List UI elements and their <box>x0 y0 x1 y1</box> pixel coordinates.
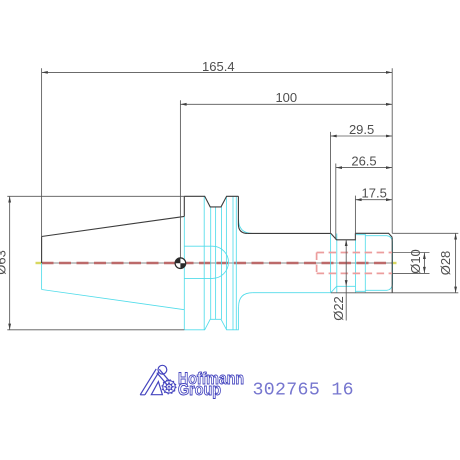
flange silhouette vertical x=215.6 (cyan) <box>215 207 217 319</box>
dim 100 line <box>180 103 392 105</box>
svg-text:26.5: 26.5 <box>351 154 376 169</box>
arrow 26.5 left <box>336 166 342 169</box>
arrow 100 right <box>386 103 392 106</box>
arrow dia10 top <box>423 253 426 259</box>
dia22 dim line <box>345 240 347 321</box>
dim 17.5 line <box>355 199 392 201</box>
ext line left 165.4 <box>41 68 43 236</box>
ext line 100/flange <box>179 100 181 263</box>
groove silhouette vertical x=330.6 (cyan) <box>330 234 332 293</box>
flange left face (black) <box>183 196 185 216</box>
nose right face (black) <box>391 237 393 292</box>
arrow dia22 top <box>345 240 348 246</box>
bore hidden line top (red dashed) <box>317 252 392 254</box>
flange silhouette vertical x=233.0 (cyan) <box>232 196 234 329</box>
taper lower line (cyan) <box>42 290 185 310</box>
arrow dia63 top <box>8 196 11 202</box>
dia28 ext top <box>392 232 458 234</box>
svg-text:100: 100 <box>275 90 297 105</box>
arrow 17.5 left <box>355 198 361 201</box>
flange silhouette vertical x=210.7 (cyan) <box>210 207 212 319</box>
ext line 17.5 <box>354 196 356 240</box>
arrow 100 left <box>180 103 186 106</box>
gauge point symbol <box>175 258 186 269</box>
svg-text:Ø22: Ø22 <box>331 296 346 321</box>
bore hidden line bottom (red dashed) <box>317 272 392 274</box>
dim 26.5 line <box>336 167 392 169</box>
ext line right shared <box>391 68 393 233</box>
arrow dia28 top <box>454 233 457 239</box>
dia10 dim line <box>423 253 425 274</box>
dim 165.4 line <box>42 71 393 73</box>
centerline yellow tick left <box>36 262 42 264</box>
coolant plug left column caps (cyan) <box>356 235 366 292</box>
drive key slot (cyan) <box>184 246 228 278</box>
lower fillet flange-neck (cyan) <box>239 293 253 307</box>
svg-text:165.4: 165.4 <box>202 59 235 74</box>
dim 29.5 line <box>331 135 393 137</box>
left face upper (black) <box>41 237 43 264</box>
groove chamfer + bottom + edge (black) <box>331 233 356 240</box>
flange silhouette vertical x=204.2 (cyan) <box>203 196 205 329</box>
dia63 ext bottom <box>7 329 184 331</box>
centerline red dashes <box>42 262 393 265</box>
arrow 165.4 right <box>386 71 392 74</box>
arrow 26.5 right <box>386 166 392 169</box>
dia10 ext bottom <box>393 272 430 274</box>
svg-text:Ø28: Ø28 <box>438 251 453 276</box>
arrow 29.5 right <box>386 135 392 138</box>
taper lower face (cyan) <box>41 263 43 290</box>
nose top + tip chamfer (black) <box>355 233 392 237</box>
ext line 29.5 <box>330 132 332 234</box>
arrow dia28 bottom <box>454 287 457 293</box>
centerline underlay <box>36 262 396 264</box>
svg-text:Ø63: Ø63 <box>0 250 8 275</box>
logo gear teeth <box>162 380 176 394</box>
dia28 ext bottom / part bottom line <box>331 292 459 294</box>
neck bottom line (cyan) <box>253 292 331 294</box>
svg-text:17.5: 17.5 <box>362 186 387 201</box>
groove/plug silhouette vertical x=355.5 (cyan) <box>355 234 357 293</box>
flange bottom profile with V-groove (cyan) <box>184 307 238 330</box>
ext line 26.5 <box>335 164 337 240</box>
dia63 dim line <box>9 196 11 329</box>
flange silhouette vertical x=236.3 (cyan) <box>235 196 237 329</box>
groove lower chamfer + mirror (cyan) <box>331 286 356 292</box>
arrow dia10 bottom <box>423 267 426 273</box>
svg-text:302765 16: 302765 16 <box>253 381 354 401</box>
svg-text:Ø10: Ø10 <box>408 249 423 274</box>
arrow 29.5 left <box>331 135 337 138</box>
logo gear outer <box>163 381 175 393</box>
flange top with V-groove (black) <box>184 196 238 207</box>
svg-text:Group: Group <box>178 380 221 399</box>
centerline yellow tick right <box>392 262 397 264</box>
bore hidden end (red dashed) <box>316 253 318 274</box>
logo figure legs <box>140 369 159 395</box>
flange left face lower part (cyan) <box>183 216 185 329</box>
logo gear star <box>165 383 174 392</box>
arrow 165.4 left <box>42 71 48 74</box>
neck top line (black) <box>248 232 331 234</box>
taper upper line (black) <box>42 216 185 236</box>
arrow 17.5 right <box>386 198 392 201</box>
arrow dia63 bottom <box>8 324 11 330</box>
logo head <box>158 365 167 374</box>
dia63 ext top <box>7 195 184 197</box>
coolant plug inner vertical (cyan) <box>364 234 366 293</box>
coolant plug body (cyan) <box>365 236 392 291</box>
dia28 dim line <box>455 233 457 292</box>
arrow dia22 bottom <box>345 280 348 286</box>
dia10 ext top <box>393 252 430 254</box>
flange right face + fillet (black) <box>238 196 247 233</box>
logo figure arm <box>157 369 170 384</box>
upper fillet flange-neck (cyan) <box>239 220 253 234</box>
logo small triangle <box>151 382 162 395</box>
flange silhouette vertical x=226.4 (cyan) <box>225 196 227 329</box>
groove silhouette vertical x=336.8 (cyan) <box>336 234 338 293</box>
flange silhouette vertical x=221.5 (cyan) <box>221 207 223 319</box>
svg-text:29.5: 29.5 <box>349 122 374 137</box>
